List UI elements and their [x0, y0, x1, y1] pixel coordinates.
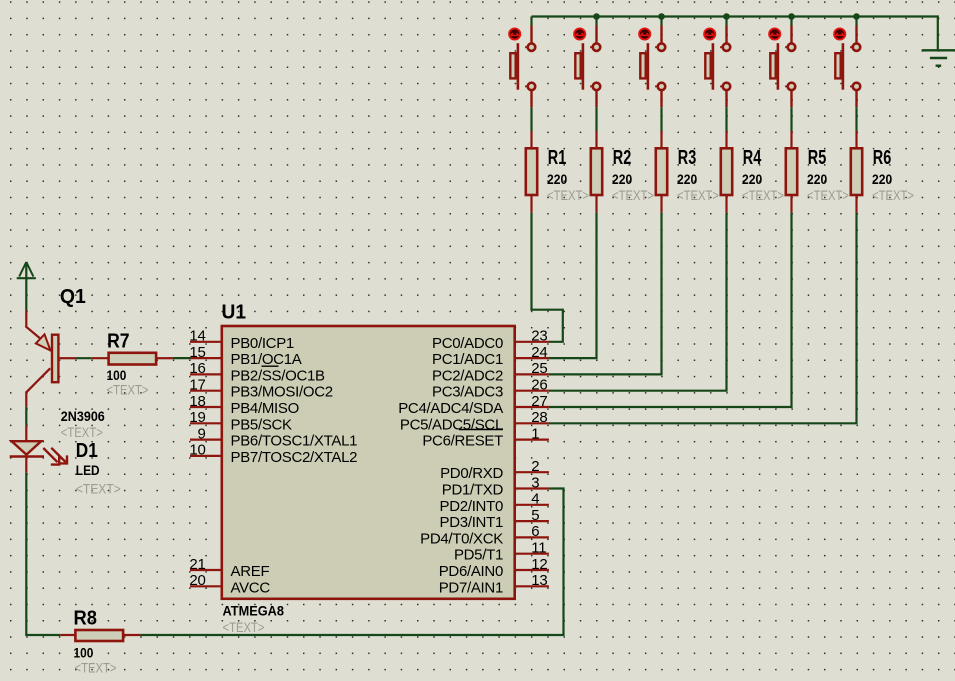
svg-text:220: 220: [742, 171, 762, 187]
svg-text:100: 100: [74, 645, 94, 661]
svg-text:6: 6: [531, 523, 539, 540]
svg-text:9: 9: [197, 425, 205, 442]
resistor R7: [91, 331, 173, 398]
svg-text:AVCC: AVCC: [231, 579, 271, 596]
push button 1: [509, 26, 535, 108]
wire button 1 to R1: [530, 107, 532, 131]
resistor R2: [591, 131, 654, 213]
wire button 4 to R4: [725, 107, 727, 131]
U1 pin 4 (PD2/INT0): [440, 491, 549, 515]
svg-text:PB5/SCK: PB5/SCK: [231, 416, 293, 433]
svg-text:PC1/ADC1: PC1/ADC1: [432, 351, 503, 368]
svg-text:<TEXT>: <TEXT>: [807, 187, 849, 203]
U1 pin 21 (AREF): [189, 556, 269, 580]
svg-text:26: 26: [531, 377, 547, 394]
svg-text:16: 16: [189, 360, 205, 377]
wire bus to button 4: [725, 17, 727, 26]
svg-text:R1: R1: [548, 147, 567, 169]
svg-text:<TEXT>: <TEXT>: [547, 187, 589, 203]
svg-text:R8: R8: [74, 608, 98, 630]
svg-text:2N3906: 2N3906: [61, 408, 105, 424]
U1 pin 11 (PD5/T1): [454, 540, 549, 564]
svg-text:<TEXT>: <TEXT>: [677, 187, 719, 203]
junction (bus / button 2 branch): [593, 13, 600, 20]
svg-text:2: 2: [531, 458, 539, 475]
wire R4 to U1 pin 26: [549, 213, 727, 391]
svg-text:PD2/INT0: PD2/INT0: [440, 498, 503, 515]
svg-text:PB2/SS/OC1B: PB2/SS/OC1B: [231, 367, 326, 384]
svg-text:1: 1: [531, 425, 539, 442]
power terminal (arrow): [17, 262, 36, 278]
wire R8 to U1 pin 3: [140, 489, 563, 636]
wire Q1 base to R7: [75, 357, 91, 359]
svg-text:13: 13: [531, 572, 547, 589]
svg-text:AREF: AREF: [231, 563, 270, 580]
svg-text:PD3/INT1: PD3/INT1: [440, 514, 503, 531]
svg-text:25: 25: [531, 360, 547, 377]
svg-text:21: 21: [189, 556, 205, 573]
svg-text:PB6/TOSC1/XTAL1: PB6/TOSC1/XTAL1: [231, 433, 358, 450]
svg-text:PC5/ADC5/SCL: PC5/ADC5/SCL: [400, 416, 503, 433]
svg-text:4: 4: [531, 491, 539, 508]
svg-text:PD0/RXD: PD0/RXD: [440, 465, 503, 482]
svg-text:PB3/MOSI/OC2: PB3/MOSI/OC2: [231, 384, 333, 401]
resistor R1: [526, 131, 589, 213]
svg-text:5: 5: [531, 507, 539, 524]
U1 pin 23 (PC0/ADC0): [432, 328, 549, 352]
svg-text:R2: R2: [613, 147, 632, 169]
junction (bus / button 4 branch): [723, 13, 730, 20]
svg-text:19: 19: [189, 409, 205, 426]
wire R6 to U1 pin 28: [549, 213, 857, 424]
LED D1: [10, 425, 121, 496]
svg-text:PC2/ADC2: PC2/ADC2: [432, 367, 503, 384]
svg-text:U1: U1: [222, 302, 247, 324]
svg-text:Q1: Q1: [60, 286, 86, 308]
IC U1 (ATMEGA8 microcontroller) body: [222, 302, 515, 635]
svg-text:PD7/AIN1: PD7/AIN1: [439, 579, 503, 596]
U1 pin 12 (PD6/AIN0): [439, 556, 549, 580]
wire GND bus (top horizontal rail to ground): [532, 17, 938, 50]
svg-text:PD6/AIN0: PD6/AIN0: [439, 563, 503, 580]
svg-text:PB7/TOSC2/XTAL2: PB7/TOSC2/XTAL2: [231, 449, 358, 466]
svg-text:R4: R4: [743, 147, 762, 169]
wire button 2 to R2: [595, 107, 597, 131]
push button 3: [639, 26, 665, 108]
svg-text:PB4/MISO: PB4/MISO: [231, 400, 299, 417]
U1 pin 27 (PC4/ADC4/SDA): [398, 393, 549, 417]
svg-text:<TEXT>: <TEXT>: [75, 660, 117, 676]
resistor R6: [851, 131, 914, 213]
wire bus to button 3: [660, 17, 662, 26]
wire D1 to R8: [26, 473, 60, 635]
svg-text:<TEXT>: <TEXT>: [612, 187, 654, 203]
svg-text:220: 220: [547, 171, 567, 187]
svg-text:PD5/T1: PD5/T1: [454, 547, 503, 564]
svg-text:PC0/ADC0: PC0/ADC0: [432, 335, 503, 352]
U1 pin 13 (PD7/AIN1): [439, 572, 549, 596]
U1 pin 16 (PB2/SS/OC1B): [189, 360, 325, 384]
svg-text:11: 11: [531, 540, 546, 557]
push button 4: [704, 26, 730, 108]
svg-text:R3: R3: [678, 147, 697, 169]
push button 2: [574, 26, 600, 108]
svg-text:220: 220: [612, 171, 632, 187]
U1 pin 6 (PD4/T0/XCK): [420, 523, 549, 547]
svg-text:R7: R7: [107, 331, 130, 353]
junction (bus / button 6 branch): [853, 13, 860, 20]
svg-text:27: 27: [531, 393, 547, 410]
wire R3 to U1 pin 25: [549, 213, 662, 375]
wire R1 to U1 pin 23: [532, 213, 563, 342]
svg-text:PC4/ADC4/SDA: PC4/ADC4/SDA: [398, 400, 503, 417]
U1 pin 18 (PB4/MISO): [189, 393, 299, 417]
svg-text:3: 3: [531, 474, 539, 491]
junction (bus / button 5 branch): [788, 13, 795, 20]
svg-text:28: 28: [531, 409, 547, 426]
svg-text:220: 220: [807, 171, 827, 187]
U1 pin 10 (PB7/TOSC2/XTAL2): [189, 442, 357, 466]
resistor R3: [656, 131, 719, 213]
svg-text:220: 220: [677, 171, 697, 187]
junction (bus / button 3 branch): [658, 13, 665, 20]
svg-text:PC6/RESET: PC6/RESET: [422, 433, 503, 450]
svg-text:PB0/ICP1: PB0/ICP1: [231, 335, 294, 352]
resistor R8: [60, 608, 140, 676]
svg-text:14: 14: [189, 328, 205, 345]
U1 pin 15 (PB1/OC1A): [189, 344, 301, 368]
wire button 5 to R5: [790, 107, 792, 131]
overline RESET (pin 1 label): [459, 429, 503, 431]
U1 pin 26 (PC3/ADC3): [432, 377, 549, 401]
transistor Q1 (2N3906 PNP): [26, 286, 105, 440]
U1 pin 14 (PB0/ICP1): [189, 328, 294, 352]
U1 pin 1 (PC6/RESET): [422, 425, 549, 449]
svg-text:<TEXT>: <TEXT>: [872, 187, 914, 203]
svg-text:23: 23: [531, 328, 547, 345]
U1 pin 25 (PC2/ADC2): [432, 360, 549, 384]
wire R7 to U1 pin 15: [173, 357, 191, 359]
svg-text:D1: D1: [76, 440, 98, 462]
wire button 6 to R6: [855, 107, 857, 131]
U1 pin 5 (PD3/INT1): [440, 507, 549, 531]
svg-text:220: 220: [872, 171, 892, 187]
wire bus to button 6: [855, 17, 857, 26]
svg-text:<TEXT>: <TEXT>: [61, 424, 103, 440]
push button 6: [834, 26, 860, 108]
svg-text:10: 10: [189, 442, 205, 459]
ground: [922, 50, 955, 65]
svg-text:24: 24: [531, 344, 547, 361]
U1 pin 17 (PB3/MOSI/OC2): [189, 377, 332, 401]
wire bus to button 2: [595, 17, 597, 26]
U1 pin 24 (PC1/ADC1): [432, 344, 549, 368]
svg-text:12: 12: [531, 556, 547, 573]
U1 pin 19 (PB5/SCK): [189, 409, 292, 433]
resistor R5: [786, 131, 849, 213]
svg-text:ATMEGA8: ATMEGA8: [223, 603, 285, 619]
push button 5: [769, 26, 795, 108]
U1 pin 20 (AVCC): [189, 572, 270, 596]
svg-text:PC3/ADC3: PC3/ADC3: [432, 384, 503, 401]
wire R2 to U1 pin 24: [549, 213, 597, 359]
resistor R4: [721, 131, 784, 213]
svg-text:R6: R6: [873, 147, 892, 169]
U1 pin 3 (PD1/TXD): [442, 474, 549, 498]
svg-text:<TEXT>: <TEXT>: [107, 381, 149, 397]
svg-text:20: 20: [189, 572, 205, 589]
svg-text:<TEXT>: <TEXT>: [223, 619, 265, 635]
wire bus to button 5: [790, 17, 792, 26]
svg-text:LED: LED: [76, 462, 100, 478]
svg-text:18: 18: [189, 393, 205, 410]
wire Q1 collector to D1: [25, 407, 27, 426]
svg-text:PD4/T0/XCK: PD4/T0/XCK: [420, 530, 503, 547]
overline SS (pin 16 label): [262, 365, 279, 367]
U1 pin 2 (PD0/RXD): [440, 458, 549, 482]
U1 pin 9 (PB6/TOSC1/XTAL1): [190, 425, 357, 449]
wire bus to button 1: [530, 17, 532, 26]
svg-text:R5: R5: [808, 147, 827, 169]
svg-text:15: 15: [189, 344, 205, 361]
svg-text:<TEXT>: <TEXT>: [742, 187, 784, 203]
U1 pin 28 (PC5/ADC5/SCL): [400, 409, 549, 433]
svg-text:PD1/TXD: PD1/TXD: [442, 482, 504, 499]
wire R5 to U1 pin 27: [549, 213, 792, 407]
svg-text:<TEXT>: <TEXT>: [76, 481, 121, 497]
wire power to Q1 emitter: [25, 278, 27, 310]
svg-text:17: 17: [189, 377, 205, 394]
wire button 3 to R3: [660, 107, 662, 131]
